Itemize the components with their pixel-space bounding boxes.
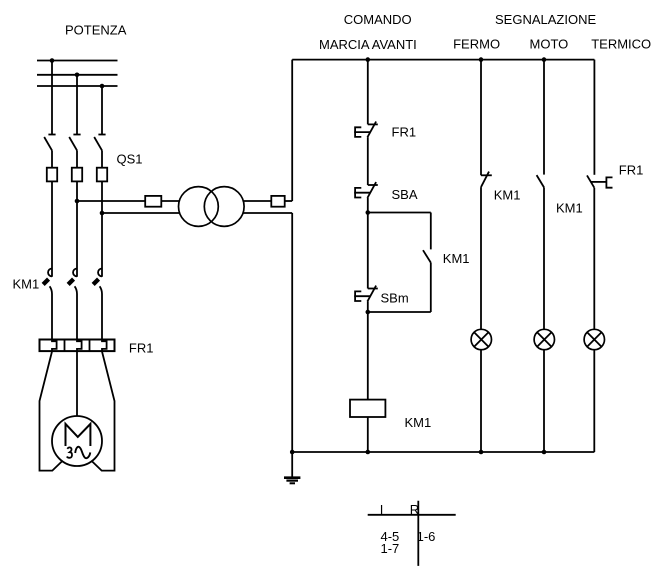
lamp termico <box>584 329 604 349</box>
svg-text:MARCIA AVANTI: MARCIA AVANTI <box>319 37 417 52</box>
wire phase2 fuse to KM1 <box>76 181 78 276</box>
motor M glyph <box>66 424 91 446</box>
node rail fermo lamp <box>479 450 484 455</box>
svg-text:TERMICO: TERMICO <box>591 36 651 51</box>
fuse phase3 <box>97 168 107 182</box>
node rail moto lamp <box>542 450 547 455</box>
wire bus L3 <box>37 85 118 87</box>
wire phase3 fuse to KM1 <box>101 181 103 276</box>
svg-text:KM1: KM1 <box>556 201 583 216</box>
thermal relay FR1 heater phase1 <box>52 340 57 352</box>
wire feed down to bottom rail <box>291 213 293 452</box>
fuse control primary <box>145 196 161 207</box>
svg-text:SEGNALAZIONE: SEGNALAZIONE <box>495 12 596 27</box>
contact SBm NC pushbutton <box>354 286 378 302</box>
svg-text:KM1: KM1 <box>443 251 470 266</box>
node L3 tap <box>100 84 105 89</box>
lamp moto <box>534 329 554 349</box>
fuse phase2 <box>72 168 82 182</box>
contactor KM1 pole3 <box>92 269 102 340</box>
wire termico to lamp <box>593 188 595 330</box>
wire fuse to transformer <box>161 200 180 202</box>
wire phase3 drop <box>101 86 103 135</box>
wire moto to lamp <box>543 187 545 329</box>
wire branch right upper <box>430 213 432 250</box>
node rail coil <box>366 450 371 455</box>
thermal relay FR1 heater phase3 <box>102 340 107 352</box>
wire branch right lower <box>430 263 432 312</box>
wire pole2 to fuse <box>76 150 78 167</box>
contact FR1 NO termico <box>587 175 613 187</box>
motor M1 circle <box>52 416 102 466</box>
wire bottom rail <box>292 451 594 453</box>
wire termico column upper <box>593 60 595 175</box>
disconnector QS1 pole1 <box>44 135 55 151</box>
wire FR1 to SBA <box>367 137 369 185</box>
contact SBA NC pushbutton <box>354 182 378 198</box>
node branch top <box>366 210 371 215</box>
wire moto column upper <box>543 60 545 175</box>
disconnector QS1 pole3 <box>94 135 105 151</box>
svg-text:FR1: FR1 <box>619 163 644 178</box>
svg-text:FR1: FR1 <box>392 125 417 140</box>
contact KM1 NO moto <box>537 175 544 187</box>
wire phase2 drop <box>76 75 78 135</box>
wire pole1 to fuse <box>51 150 53 167</box>
thermal relay FR1 box <box>40 340 115 352</box>
svg-text:SBm: SBm <box>381 291 409 306</box>
ground <box>284 452 300 483</box>
axis vertical line <box>417 501 419 566</box>
motor tilde glyph <box>75 447 90 458</box>
svg-text:QS1: QS1 <box>117 152 143 167</box>
svg-text:1-7: 1-7 <box>381 541 400 556</box>
wire phase1 drop <box>51 61 53 135</box>
wire motor lead3 <box>91 352 114 471</box>
axis horizontal line <box>368 514 456 516</box>
contactor KM1 pole1 <box>42 269 52 340</box>
svg-text:KM1: KM1 <box>494 188 521 203</box>
transformer T1 secondary winding <box>204 187 244 227</box>
wire fermo to lamp <box>480 187 482 329</box>
contact KM1 NO aux <box>423 250 431 262</box>
svg-text:MOTO: MOTO <box>530 36 569 51</box>
contact FR1 NC control <box>354 122 378 138</box>
svg-text:R: R <box>410 502 419 517</box>
wire coil to bottom rail <box>367 417 369 452</box>
svg-text:FERMO: FERMO <box>453 36 500 51</box>
wire motor lead1 <box>40 352 63 471</box>
node rail ground <box>290 450 295 455</box>
svg-text:SBA: SBA <box>392 187 418 202</box>
wire primary top (phase2 to transformer) <box>77 200 145 202</box>
thermal relay FR1 divider2 <box>89 340 91 352</box>
wire bus L2 <box>37 74 118 76</box>
node branch bottom <box>366 310 371 315</box>
wire branch bottom <box>368 311 431 313</box>
node rail moto <box>542 57 547 62</box>
node phase2 transformer tap <box>75 199 80 204</box>
wire SBm to coil <box>367 301 369 399</box>
wire secondary top <box>243 200 272 202</box>
wire fermo column upper <box>480 60 482 176</box>
wire pole3 to fuse <box>101 150 103 167</box>
wire fermo lamp to rail <box>480 350 482 452</box>
wire control top rail <box>292 59 594 61</box>
wire branch top <box>368 212 431 214</box>
transformer T1 primary winding <box>179 187 219 227</box>
wire secondary bottom <box>243 212 293 214</box>
wire marcia column upper <box>367 60 369 125</box>
wire bus L1 <box>37 60 118 62</box>
disconnector QS1 pole2 <box>69 135 80 151</box>
wire motor lead2 <box>76 352 78 417</box>
wire primary bottom (phase3 to transformer) <box>102 212 180 214</box>
node L2 tap <box>75 73 80 78</box>
wire fuse to feed corner <box>285 200 293 202</box>
thermal relay FR1 heater phase2 <box>77 340 82 352</box>
wire feed up to rail <box>291 60 293 201</box>
fuse control secondary <box>271 196 284 207</box>
node rail marcia <box>366 57 371 62</box>
svg-text:1-6: 1-6 <box>417 529 436 544</box>
svg-text:COMANDO: COMANDO <box>344 12 412 27</box>
thermal relay FR1 divider1 <box>64 340 66 352</box>
svg-text:KM1: KM1 <box>405 415 432 430</box>
fuse phase1 <box>47 168 57 182</box>
node phase3 transformer tap <box>100 211 105 216</box>
wire phase1 fuse to KM1 <box>51 181 53 276</box>
svg-text:FR1: FR1 <box>129 341 154 356</box>
node L1 tap <box>50 58 55 63</box>
svg-text:I: I <box>380 502 384 517</box>
wire SBA to SBm <box>367 198 369 289</box>
svg-text:KM1: KM1 <box>13 277 40 292</box>
lamp fermo <box>471 329 491 349</box>
wire termico lamp to rail <box>593 350 595 452</box>
coil KM1 <box>350 400 385 417</box>
node rail fermo <box>479 57 484 62</box>
contactor KM1 pole2 <box>67 269 77 340</box>
svg-text:POTENZA: POTENZA <box>65 23 127 38</box>
wire moto lamp to rail <box>543 350 545 452</box>
contact KM1 NC fermo <box>481 172 492 188</box>
motor 3 glyph <box>67 447 72 457</box>
